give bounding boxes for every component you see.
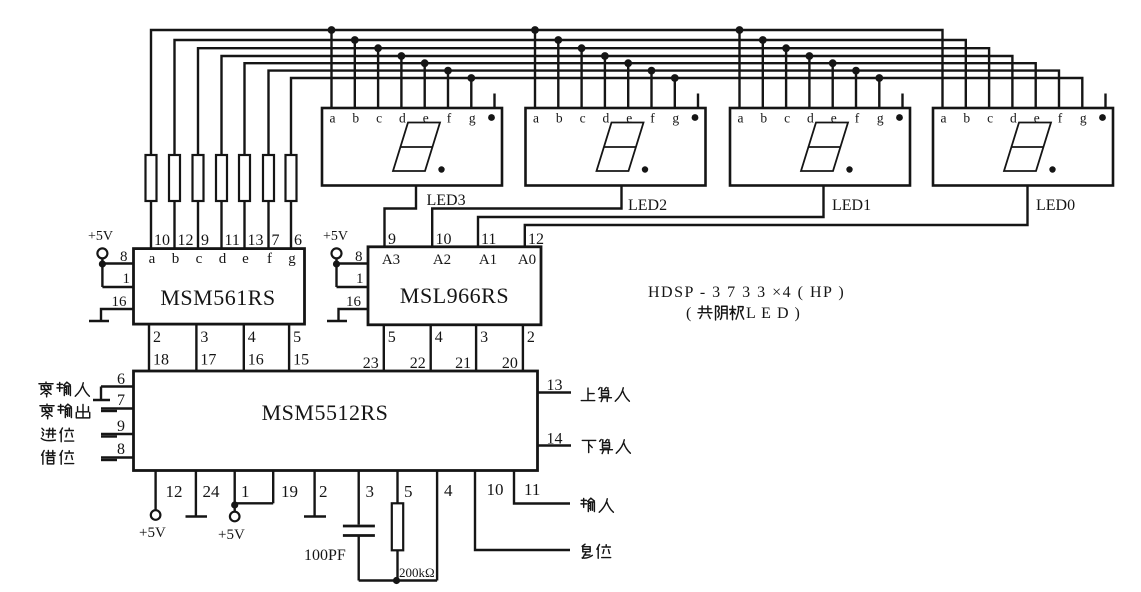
U3 pin 23 label: [363, 355, 379, 372]
svg-text:d: d: [219, 251, 227, 267]
U1 pin 16 label: [112, 294, 128, 310]
svg-text:9: 9: [117, 418, 125, 435]
seven-segment display LED3 (HDSP-3733): [322, 94, 502, 186]
svg-text:c: c: [784, 111, 790, 126]
wire LED3 pin d drop: [400, 56, 402, 108]
junction LED3 a: [328, 26, 336, 34]
U3 pin 18 label: [153, 352, 169, 369]
svg-text:4: 4: [435, 329, 443, 346]
wire U1 pin 3 to U3 pin 17: [195, 324, 197, 371]
U3 pin 2 label: [319, 482, 328, 501]
U3 pin 13 label: [547, 377, 563, 394]
wire LED3 pin e drop: [424, 63, 426, 108]
wire LED2 pin e drop: [627, 63, 629, 108]
junction LED2 d: [601, 52, 609, 60]
wire LED1 pin e drop: [832, 63, 834, 108]
junction pin1/pin19: [231, 501, 238, 508]
U3 pin 21 label: [455, 355, 471, 372]
U1 pin 9 number: [201, 232, 209, 249]
svg-text:+5V: +5V: [218, 527, 245, 543]
svg-text:3: 3: [366, 482, 375, 501]
junction LED1 d: [806, 52, 814, 60]
svg-text:c: c: [580, 111, 586, 126]
svg-text:1: 1: [241, 482, 250, 501]
junction LED2 f: [648, 67, 656, 75]
svg-text:f: f: [447, 111, 452, 126]
junction LED1 b: [759, 36, 767, 44]
wire U3 pin 12 to +5V: [154, 471, 156, 511]
pin 12 label: [528, 231, 544, 248]
wire U3 pin 1 to +5V: [233, 471, 235, 512]
U3 pin 12 label: [166, 482, 183, 501]
resistor R6: [263, 155, 274, 201]
junction U1 power: [99, 260, 106, 267]
svg-text:a: a: [149, 251, 156, 267]
label reset: [582, 544, 611, 558]
wire LED2 pin b drop: [557, 40, 559, 108]
U3 pin 9 label: [117, 418, 125, 435]
U2 pin 1 label: [356, 271, 364, 287]
svg-text:a: a: [330, 111, 336, 126]
junction LED1 e: [829, 59, 837, 67]
svg-text:15: 15: [293, 352, 309, 369]
power +5V terminal (U2): [323, 229, 348, 258]
svg-text:f: f: [855, 111, 860, 126]
label LED3: [427, 192, 466, 209]
svg-text:+5V: +5V: [88, 229, 113, 244]
svg-text:LED3: LED3: [427, 192, 466, 209]
label up-count-in: [581, 387, 629, 401]
pin 11 label: [481, 231, 496, 248]
label LED2: [628, 197, 667, 214]
svg-text:3: 3: [200, 329, 208, 346]
label down-count-in: [582, 439, 630, 453]
wire U3 pin 10 (reset): [475, 471, 570, 551]
svg-text:HDSP - 3 7 3 3 ×4 ( HP ): HDSP - 3 7 3 3 ×4 ( HP ): [648, 284, 845, 301]
wire LED3 pin g drop: [470, 78, 472, 108]
wire R5 to U1: [243, 201, 245, 249]
U2 pin 16 label: [346, 294, 362, 310]
wire U1 pin 1 tie: [102, 286, 133, 288]
svg-text:23: 23: [363, 355, 379, 372]
resistor R4: [216, 155, 227, 201]
U3 pin 17 label: [200, 352, 216, 369]
pin 10 label: [436, 231, 452, 248]
seven-segment display LED0 (HDSP-3733): [933, 94, 1113, 186]
wire segment-g bus: [291, 78, 1082, 155]
svg-text:19: 19: [281, 482, 298, 501]
seven-segment display LED1 (HDSP-3733): [730, 94, 910, 186]
LED3 digit figure: [393, 123, 445, 173]
junction LED2 a: [531, 26, 539, 34]
resistor R5: [239, 155, 250, 201]
svg-text:b: b: [760, 111, 767, 126]
wire U3 pin 13 (up count): [538, 391, 572, 393]
svg-text:8: 8: [117, 441, 125, 458]
svg-text:14: 14: [547, 431, 563, 448]
wire segment-c bus: [198, 48, 989, 155]
U3 pin 6 label: [117, 371, 125, 388]
wire LED1 to U2 pin 11 (A1): [478, 186, 824, 247]
wire R3 to U1: [197, 201, 199, 249]
svg-text:5: 5: [404, 482, 413, 501]
wire LED2 pin a drop: [534, 30, 536, 108]
junction LED1 a: [736, 26, 744, 34]
svg-text:g: g: [469, 111, 476, 126]
ground U2 pin 16: [327, 309, 368, 321]
svg-text:200kΩ: 200kΩ: [399, 565, 435, 580]
driver IC U1 MSM561RS: [134, 249, 305, 325]
U1 pin 2 label: [153, 329, 161, 346]
wire U3 pin 4: [436, 471, 438, 581]
wire U3 pin 7 (zero-out): [101, 409, 134, 412]
svg-text:A0: A0: [518, 252, 536, 268]
U3 pin 22 label: [410, 355, 426, 372]
U3 pin 19 label: [281, 482, 298, 501]
resistor R8 200k: [392, 471, 403, 581]
svg-text:5: 5: [388, 329, 396, 346]
label LED1: [832, 197, 871, 214]
wire U2 pin 4 to U3 pin 22: [430, 325, 432, 371]
U1 pin 13 number: [248, 232, 264, 249]
U2 pin 4 label: [435, 329, 443, 346]
svg-text:A2: A2: [433, 252, 451, 268]
wire LED1 pin c drop: [785, 48, 787, 108]
junction LED3 e: [421, 59, 429, 67]
svg-text:d: d: [1010, 111, 1017, 126]
svg-text:f: f: [267, 251, 272, 267]
svg-text:1: 1: [123, 271, 131, 287]
power +5V terminal (U1): [88, 229, 113, 258]
svg-text:a: a: [738, 111, 744, 126]
wire LED1 pin g drop: [878, 78, 880, 108]
U3 pin 8 label: [117, 441, 125, 458]
wire R2 to U1: [173, 201, 175, 249]
wire LED3 pin a drop: [330, 30, 332, 108]
seven-segment display LED2 (HDSP-3733): [526, 94, 706, 186]
junction LED1 f: [852, 67, 860, 75]
label zero-input: [39, 382, 89, 397]
junction LED3 d: [398, 52, 406, 60]
wire RC bottom: [359, 579, 437, 581]
svg-text:5: 5: [293, 329, 301, 346]
svg-text:12: 12: [166, 482, 183, 501]
junction U2 power: [333, 260, 340, 267]
wire U1 pin 5 to U3 pin 15: [288, 324, 290, 371]
svg-text:100PF: 100PF: [304, 547, 346, 564]
LED1 digit figure: [801, 123, 853, 173]
U3 pin 14 label: [547, 431, 563, 448]
svg-text:d: d: [807, 111, 814, 126]
svg-text:g: g: [1080, 111, 1087, 126]
U3 pin 5 label: [404, 482, 413, 501]
svg-text:LED0: LED0: [1036, 197, 1075, 214]
svg-text:1: 1: [356, 271, 364, 287]
U1 pin 5 label: [293, 329, 301, 346]
wire U3 pin 19 tie to pin 1: [235, 471, 274, 504]
svg-text:12: 12: [178, 232, 194, 249]
label input: [581, 498, 613, 512]
resistor R1: [146, 155, 157, 201]
wire segment-f bus: [269, 71, 1060, 155]
ground U3 pin 2: [304, 471, 326, 517]
U1 pin 1 label: [123, 271, 131, 287]
wire R7 to U1: [290, 201, 292, 249]
label 100PF: [304, 547, 346, 564]
resistor R7: [286, 155, 297, 201]
svg-text:MSM561RS: MSM561RS: [160, 285, 275, 310]
svg-text:2: 2: [153, 329, 161, 346]
wire LED1 pin d drop: [808, 56, 810, 108]
svg-text:3: 3: [480, 329, 488, 346]
svg-text:11: 11: [524, 480, 540, 499]
svg-text:10: 10: [154, 232, 170, 249]
svg-text:MSM5512RS: MSM5512RS: [262, 400, 389, 425]
wire U2 pin 5 to U3 pin 23: [383, 325, 385, 371]
wire segment-e bus: [245, 63, 1036, 155]
U1 pin 4 label: [248, 329, 256, 346]
svg-text:11: 11: [225, 232, 240, 249]
U1 pin 11 number: [225, 232, 240, 249]
svg-text:f: f: [1058, 111, 1063, 126]
svg-text:a: a: [941, 111, 947, 126]
wire U1 pin 2 to U3 pin 18: [148, 324, 150, 371]
annotation HDSP-3733 x4 (HP): [648, 284, 845, 301]
U1 pin 7 number: [272, 232, 280, 249]
svg-text:A1: A1: [479, 252, 497, 268]
wire LED1 pin f drop: [855, 71, 857, 108]
junction LED2 c: [578, 44, 586, 52]
svg-text:13: 13: [547, 377, 563, 394]
svg-text:e: e: [242, 251, 249, 267]
svg-text:+5V: +5V: [139, 525, 166, 541]
wire segment-b bus: [175, 40, 966, 155]
ground U3 pin 24: [186, 471, 208, 517]
wire LED2 pin f drop: [650, 71, 652, 108]
U3 pin 15 label: [293, 352, 309, 369]
wire LED1 pin a drop: [738, 30, 740, 108]
wire U2 pin 2 to U3 pin 20: [522, 325, 524, 371]
resistor R3: [193, 155, 204, 201]
wire LED2 to U2 pin 10 (A2): [432, 186, 621, 247]
svg-text:LED2: LED2: [628, 197, 667, 214]
U2 pin 5 label: [388, 329, 396, 346]
svg-text:4: 4: [444, 481, 453, 500]
junction LED2 e: [624, 59, 632, 67]
pin 9 label: [388, 231, 396, 248]
label zero-output: [40, 404, 90, 419]
svg-text:L E D ): L E D ): [746, 305, 801, 322]
svg-text:g: g: [288, 251, 296, 267]
wire LED2 pin d drop: [604, 56, 606, 108]
resistor R2: [169, 155, 180, 201]
svg-text:13: 13: [248, 232, 264, 249]
junction LED3 g: [467, 74, 475, 82]
junction LED3 c: [374, 44, 382, 52]
U3 pin 7 label: [117, 392, 125, 409]
wire LED3 to U2 pin 9 (A3): [385, 186, 417, 247]
wire LED3 pin f drop: [447, 71, 449, 108]
wire LED3 pin b drop: [354, 40, 356, 108]
svg-text:+5V: +5V: [323, 229, 348, 244]
svg-text:20: 20: [502, 355, 518, 372]
power +5V terminal (pin 12): [139, 510, 166, 541]
svg-text:22: 22: [410, 355, 426, 372]
wire U3 pin 11 (input): [514, 471, 570, 504]
wire LED2 pin g drop: [674, 78, 676, 108]
svg-text:d: d: [603, 111, 610, 126]
svg-text:g: g: [877, 111, 884, 126]
svg-text:16: 16: [346, 294, 362, 310]
U3 pin 10 label: [487, 480, 504, 499]
svg-text:A3: A3: [382, 252, 400, 268]
svg-text:6: 6: [117, 371, 125, 388]
junction LED2 b: [554, 36, 562, 44]
wire LED2 pin c drop: [580, 48, 582, 108]
svg-text:9: 9: [201, 232, 209, 249]
junction LED1 g: [875, 74, 883, 82]
svg-text:4: 4: [248, 329, 256, 346]
svg-text:18: 18: [153, 352, 169, 369]
U3 pin 20 label: [502, 355, 518, 372]
wire +5V to U1 pin 8: [102, 258, 133, 287]
U3 pin 11 label: [524, 480, 540, 499]
svg-text:f: f: [650, 111, 655, 126]
svg-text:10: 10: [487, 480, 504, 499]
wire U2 pin 1 tie: [337, 286, 369, 288]
U3 pin 1 label: [241, 482, 250, 501]
junction LED2 g: [671, 74, 679, 82]
main IC U3 MSM5512RS: [134, 371, 538, 471]
wire LED0 to U2 pin 12 (A0): [525, 186, 1028, 247]
U1 pin 10 number: [154, 232, 170, 249]
svg-text:LED1: LED1: [832, 197, 871, 214]
wire U2 pin 3 to U3 pin 21: [475, 325, 477, 371]
svg-text:2: 2: [527, 329, 535, 346]
wire R1 to U1: [150, 201, 152, 249]
svg-text:c: c: [987, 111, 993, 126]
label carry: [41, 428, 73, 442]
svg-text:24: 24: [203, 482, 221, 501]
svg-text:7: 7: [272, 232, 280, 249]
U1 pin 8 label: [120, 249, 128, 265]
U3 pin 16 label: [248, 352, 264, 369]
driver IC U2 MSL966RS: [368, 247, 541, 325]
wire LED3 pin c drop: [377, 48, 379, 108]
U1 pin 3 label: [200, 329, 208, 346]
svg-text:17: 17: [200, 352, 216, 369]
U3 pin 4 label: [444, 481, 453, 500]
junction LED3 f: [444, 67, 452, 75]
svg-text:c: c: [196, 251, 203, 267]
junction LED1 c: [782, 44, 790, 52]
U3 pin 24 label: [203, 482, 221, 501]
U2 pin 8 label: [355, 249, 363, 265]
svg-text:b: b: [352, 111, 359, 126]
junction LED3 b: [351, 36, 359, 44]
svg-text:b: b: [963, 111, 970, 126]
svg-text:d: d: [399, 111, 406, 126]
U2 pin 2 label: [527, 329, 535, 346]
svg-text:b: b: [172, 251, 180, 267]
wire R6 to U1: [267, 201, 269, 249]
U3 pin 3 label: [366, 482, 375, 501]
svg-text:c: c: [376, 111, 382, 126]
wire U3 pin 6 (zero-in): [93, 387, 134, 401]
svg-text:6: 6: [294, 232, 302, 249]
U2 pin 3 label: [480, 329, 488, 346]
wire U3 pin 9 (carry): [101, 434, 134, 437]
svg-text:8: 8: [355, 249, 363, 265]
svg-text:8: 8: [120, 249, 128, 265]
svg-text:b: b: [556, 111, 563, 126]
ground U1 pin 16: [89, 309, 134, 321]
wire R4 to U1: [220, 201, 222, 249]
wire U3 pin 14 (down count): [538, 444, 572, 446]
wire segment-d bus: [222, 56, 1013, 155]
wire segment-a bus: [151, 30, 943, 155]
U1 pin 6 number: [294, 232, 302, 249]
junction R8 bottom: [393, 577, 400, 584]
U1 pin 12 number: [178, 232, 194, 249]
svg-text:16: 16: [112, 294, 128, 310]
svg-text:7: 7: [117, 392, 125, 409]
wire U1 pin 4 to U3 pin 16: [243, 324, 245, 371]
LED0 digit figure: [1004, 123, 1056, 173]
power +5V terminal (pin 1): [218, 512, 245, 543]
svg-text:a: a: [533, 111, 539, 126]
svg-text:16: 16: [248, 352, 264, 369]
wire +5V to U2 pin 8: [337, 258, 369, 287]
wire U3 pin 8 (borrow): [101, 458, 134, 461]
svg-text:g: g: [672, 111, 679, 126]
label borrow: [42, 450, 74, 464]
LED2 digit figure: [597, 123, 649, 173]
capacitor C1 100PF: [343, 471, 375, 581]
svg-text:MSL966RS: MSL966RS: [400, 283, 509, 308]
wire LED1 pin b drop: [762, 40, 764, 108]
label 200k: [399, 565, 435, 580]
label LED0: [1036, 197, 1075, 214]
svg-text:2: 2: [319, 482, 328, 501]
annotation common cathode LED: [686, 305, 801, 322]
svg-text:21: 21: [455, 355, 471, 372]
svg-text:(: (: [686, 305, 691, 322]
